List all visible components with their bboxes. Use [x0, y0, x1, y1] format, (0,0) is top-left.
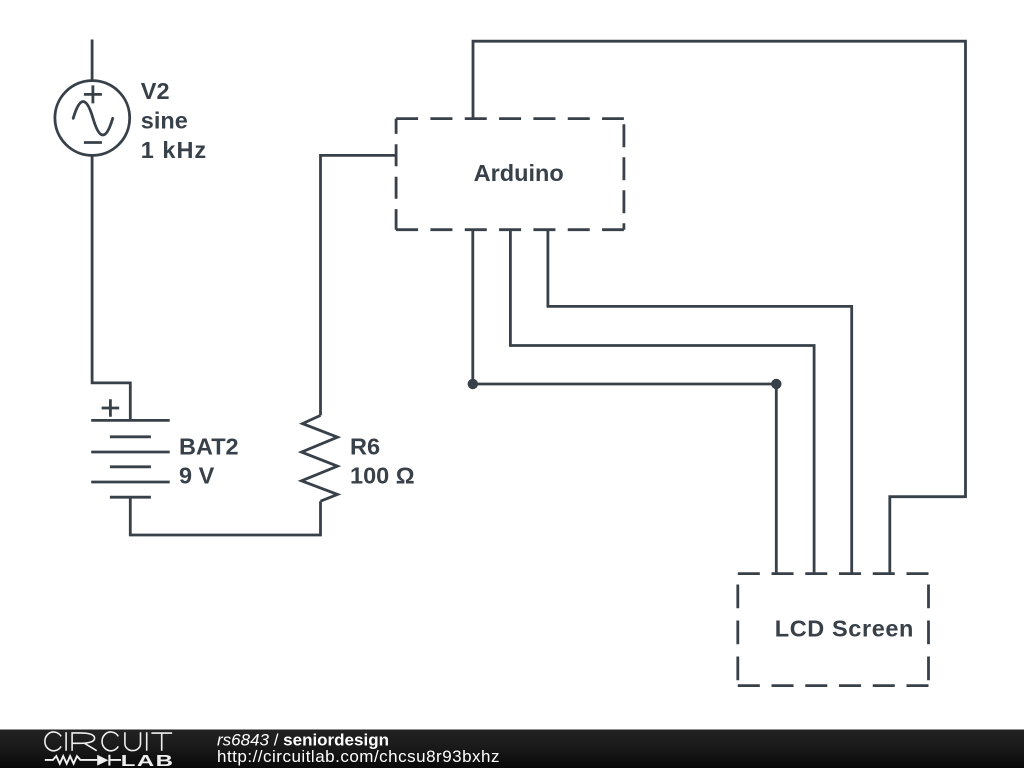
- label Arduino: [474, 160, 564, 186]
- wire: junction A to junction B: [473, 383, 777, 386]
- wire: junction B down to LCD: [775, 384, 778, 574]
- resistor R6: [302, 415, 338, 501]
- label V2 values: [141, 78, 207, 163]
- CircuitLab logo: [45, 732, 175, 768]
- wire: Arduino pin3 to LCD: [548, 230, 852, 574]
- wire: battery negative to resistor bottom: [130, 497, 320, 535]
- battery BAT2: [91, 399, 170, 497]
- svg-text:BAT2: BAT2: [179, 434, 239, 460]
- svg-text:100 Ω: 100 Ω: [350, 462, 415, 488]
- svg-text:9 V: 9 V: [179, 462, 215, 488]
- svg-text:Arduino: Arduino: [474, 160, 564, 186]
- voltage source V2: [55, 81, 130, 156]
- svg-text:1 kHz: 1 kHz: [141, 137, 207, 163]
- label R6 values: [350, 434, 415, 489]
- wire: Arduino pin2 to LCD: [510, 230, 814, 574]
- wire: Arduino left pin to resistor top: [321, 155, 397, 415]
- wire: Arduino pin1 down to junction A: [471, 230, 474, 384]
- label LCD Screen: [775, 616, 914, 642]
- wire: V2 to battery positive: [92, 155, 130, 420]
- svg-text:V2: V2: [141, 78, 170, 104]
- block Arduino: [396, 119, 624, 230]
- svg-text:R6: R6: [350, 434, 380, 460]
- svg-text:LCD Screen: LCD Screen: [775, 616, 914, 642]
- footer bar: [0, 730, 1024, 768]
- svg-text:sine: sine: [141, 108, 188, 134]
- svg-text:http://circuitlab.com/chcsu8r9: http://circuitlab.com/chcsu8r93bxhz: [217, 747, 500, 766]
- label BAT2 values: [179, 434, 239, 489]
- node junction B: [771, 379, 781, 389]
- wire: stub above V2: [91, 40, 94, 82]
- wire: Arduino top around loop to LCD right pin: [473, 41, 966, 573]
- node junction A: [468, 379, 478, 389]
- footer text: [217, 730, 500, 766]
- block LCD Screen: [738, 574, 929, 686]
- svg-text:LAB: LAB: [121, 753, 175, 768]
